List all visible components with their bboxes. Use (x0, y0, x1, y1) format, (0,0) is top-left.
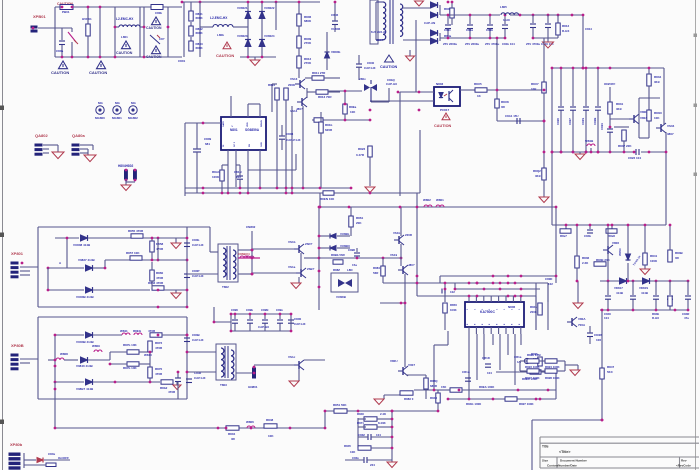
svg-text:VS1b: VS1b (393, 231, 400, 235)
svg-text:R85U: R85U (450, 303, 457, 307)
svg-text:VU8024: VU8024 (264, 34, 275, 38)
svg-text:VS1c: VS1c (288, 355, 296, 359)
svg-text:C81b 104: C81b 104 (502, 42, 515, 46)
svg-text:R884: R884 (373, 266, 380, 270)
svg-text:10K: 10K (350, 110, 356, 114)
svg-text:200K: 200K (530, 310, 538, 314)
svg-text:C83x: C83x (48, 452, 56, 456)
svg-text:VU80B 414B: VU80B 414B (76, 295, 95, 299)
svg-text:3K9: 3K9 (654, 80, 660, 84)
svg-text:W811: W811 (120, 329, 128, 333)
svg-text:C827: C827 (568, 118, 572, 125)
svg-text:C84R: C84R (594, 333, 603, 337)
svg-text:R834: R834 (654, 75, 662, 79)
svg-text:R84G 100K: R84G 100K (466, 402, 482, 406)
svg-text:2.2K: 2.2K (582, 261, 589, 265)
svg-text:270K: 270K (304, 61, 312, 65)
svg-text:GN801: GN801 (248, 385, 258, 389)
svg-text:VS1a: VS1a (288, 265, 296, 269)
svg-text:R855 470R: R855 470R (128, 229, 144, 233)
svg-text:W810: W810 (144, 353, 152, 357)
svg-text:R8U8: R8U8 (501, 100, 509, 104)
svg-text:CAP-HX: CAP-HX (364, 66, 376, 70)
svg-text:Size: Size (542, 459, 548, 463)
svg-text:CR1a: CR1a (514, 355, 522, 359)
svg-text:R83B: R83B (675, 251, 684, 255)
svg-text:8.43K: 8.43K (378, 421, 387, 425)
svg-text:C89b: C89b (246, 308, 253, 312)
svg-text:QA802: QA802 (35, 133, 48, 138)
svg-text:MG801: MG801 (112, 116, 122, 120)
svg-text:25V 4700u: 25V 4700u (526, 42, 540, 46)
svg-text:V80U: V80U (390, 359, 398, 363)
svg-text:CAP-HX: CAP-HX (386, 82, 397, 86)
svg-text:N801: N801 (230, 128, 238, 132)
svg-text:R836: R836 (582, 256, 590, 260)
svg-text:MG800: MG800 (95, 116, 105, 120)
svg-text:47u: 47u (684, 316, 689, 320)
svg-text:C800: C800 (294, 317, 302, 321)
svg-text:On/OFF: On/OFF (58, 456, 69, 460)
svg-text:VS19: VS19 (390, 253, 397, 257)
svg-text:CAP-HX: CAP-HX (194, 376, 206, 380)
svg-text:C821: C821 (600, 123, 604, 130)
svg-text:C84b: C84b (584, 234, 591, 238)
svg-text:XP80b: XP80b (10, 442, 23, 447)
svg-text:GND: GND (261, 142, 263, 147)
svg-text:R872: R872 (155, 341, 163, 345)
svg-text:R8EN 10K: R8EN 10K (320, 197, 335, 201)
svg-text:0.47R: 0.47R (356, 153, 365, 157)
svg-text:W808: W808 (60, 352, 68, 356)
svg-text:HVR01: HVR01 (82, 17, 92, 21)
svg-text:C83B: C83B (192, 333, 201, 337)
svg-text:20K: 20K (356, 221, 362, 225)
svg-text:VD817: VD817 (614, 286, 623, 290)
svg-text:C89N: C89N (261, 308, 268, 312)
svg-text:104: 104 (604, 316, 609, 320)
svg-text:C81S: C81S (581, 118, 585, 125)
svg-text:V08B7 414B: V08B7 414B (76, 387, 94, 391)
svg-text:VU8DB: VU8DB (336, 295, 346, 299)
svg-text:10K: 10K (268, 434, 274, 438)
svg-text:MG: MG (131, 101, 136, 105)
svg-text:MG: MG (115, 101, 120, 105)
svg-text:700A: 700A (578, 323, 586, 327)
svg-text:C8NBU4: C8NBU4 (238, 252, 250, 256)
svg-text:104: 104 (376, 433, 381, 437)
svg-text:L8N: L8N (347, 268, 352, 272)
svg-text:CR1A: CR1A (462, 370, 471, 374)
svg-text:VU808 414B: VU808 414B (73, 243, 91, 247)
svg-text:470R: 470R (155, 346, 163, 350)
svg-text:C80P: C80P (192, 269, 200, 273)
svg-text:V80x: V80x (359, 77, 366, 81)
svg-text:1-HX: 1-HX (503, 18, 510, 22)
svg-text:C81b: C81b (486, 28, 493, 32)
svg-text:R-HX: R-HX (562, 29, 569, 33)
svg-text:CAUTION: CAUTION (216, 53, 234, 58)
svg-text:DRAIN: DRAIN (260, 120, 263, 127)
svg-text:R883 0: R883 0 (404, 397, 414, 401)
svg-text:R858: R858 (156, 242, 164, 246)
svg-text:25V 2200u: 25V 2200u (465, 42, 479, 46)
svg-text:J80?: J80? (296, 107, 303, 111)
svg-text:C898: C898 (348, 248, 355, 252)
svg-text:R837: R837 (618, 144, 626, 148)
svg-text:XPB01: XPB01 (33, 14, 46, 19)
svg-text:R8b2: R8b2 (160, 386, 168, 390)
svg-text:102: 102 (548, 282, 553, 286)
svg-text:681: 681 (205, 142, 210, 146)
svg-text:V806: V806 (612, 241, 619, 245)
svg-text:C840: C840 (367, 61, 375, 65)
svg-text:15a: 15a (352, 263, 357, 267)
svg-text:MG: MG (98, 101, 103, 105)
svg-text:VS13: VS13 (290, 77, 298, 81)
svg-text:V007: V007 (408, 363, 415, 367)
svg-text:CAP-HX: CAP-HX (258, 325, 269, 329)
svg-text:2SD?: 2SD? (305, 242, 313, 246)
svg-text:R847: R847 (607, 365, 615, 369)
svg-text:R8A1: R8A1 (212, 170, 220, 174)
svg-text:C89x: C89x (276, 308, 283, 312)
svg-text:R871: R871 (357, 421, 364, 425)
svg-text:470R: 470R (156, 276, 164, 280)
svg-text:CustomNumber/Date: CustomNumber/Date (547, 464, 577, 468)
svg-text:T802: T802 (222, 285, 229, 289)
svg-text:Rev: Rev (681, 459, 687, 463)
svg-text:680K: 680K (304, 19, 312, 23)
svg-text:FB: FB (249, 144, 251, 147)
svg-text:R8U5: R8U5 (474, 82, 482, 86)
svg-text:R88Q: R88Q (430, 379, 438, 383)
svg-text:XP80B: XP80B (11, 343, 24, 348)
svg-text:680K: 680K (196, 31, 204, 35)
svg-text:470R: 470R (168, 390, 176, 394)
svg-text:R811 27R: R811 27R (312, 71, 326, 75)
svg-text:C809: C809 (204, 137, 212, 141)
svg-text:25V 2200u: 25V 2200u (443, 42, 457, 46)
svg-text:CAUTION: CAUTION (116, 51, 133, 55)
svg-text:100K: 100K (450, 308, 457, 312)
svg-text:C820: C820 (556, 118, 560, 125)
svg-text:<RevCode: <RevCode (676, 464, 691, 468)
svg-text:C811: C811 (444, 28, 451, 32)
svg-text:VU8022: VU8022 (264, 6, 275, 10)
svg-text:R827 100K: R827 100K (525, 376, 541, 380)
svg-text:W802: W802 (423, 198, 431, 202)
svg-text:R831: R831 (616, 102, 624, 106)
svg-text:Title: Title (542, 445, 549, 449)
svg-text:L2-EMC-HX: L2-EMC-HX (116, 17, 134, 21)
svg-text:V803: V803 (640, 116, 647, 120)
svg-text:CAP-HX: CAP-HX (192, 243, 204, 247)
svg-text:T803: T803 (220, 383, 227, 387)
svg-text:C82B: C82B (593, 118, 597, 125)
svg-text:R8x7: R8x7 (560, 234, 567, 238)
svg-text:CAUTION: CAUTION (51, 70, 69, 75)
svg-text:620R: 620R (325, 128, 333, 132)
svg-text:CAUTION: CAUTION (146, 26, 162, 30)
svg-text:C801: C801 (178, 59, 186, 63)
svg-text:R82b 10M: R82b 10M (527, 353, 541, 357)
svg-text:C81a: C81a (466, 28, 473, 32)
svg-text:R84d: R84d (430, 396, 437, 400)
svg-text:270K: 270K (304, 41, 312, 45)
svg-text:VD816: VD816 (619, 248, 622, 256)
svg-text:VU8Eb: VU8Eb (340, 232, 350, 236)
svg-text:680R: 680R (430, 384, 438, 388)
svg-text:N803: N803 (436, 82, 444, 86)
svg-text:2SB?: 2SB? (307, 267, 315, 271)
svg-text:680K: 680K (196, 16, 204, 20)
svg-text:3K9: 3K9 (616, 107, 622, 111)
svg-text:J80?: J80? (408, 263, 415, 267)
svg-text:R81b: R81b (325, 123, 333, 127)
svg-text:100K: 100K (212, 175, 220, 179)
svg-text:C80D: C80D (545, 277, 552, 281)
svg-text:R8EA 100K: R8EA 100K (479, 385, 495, 389)
svg-text:R851 50K: R851 50K (333, 403, 347, 407)
svg-text:W801: W801 (436, 198, 444, 202)
svg-text:CN802: CN802 (246, 225, 256, 229)
svg-text:414B: 414B (641, 291, 648, 295)
svg-text:L805: L805 (500, 5, 507, 9)
svg-text:680K: 680K (196, 46, 204, 50)
svg-text:CAUTION: CAUTION (146, 55, 162, 59)
svg-text:MG802: MG802 (128, 116, 138, 120)
svg-text:10K: 10K (350, 450, 356, 454)
svg-text:R8x8: R8x8 (608, 234, 615, 238)
svg-text:C896: C896 (231, 308, 238, 312)
svg-text:Document Number: Document Number (560, 459, 588, 463)
svg-text:3807: 3807 (667, 132, 674, 136)
svg-text:R845: R845 (344, 444, 351, 448)
svg-text:V0827 414B: V0827 414B (78, 258, 96, 262)
svg-text:100K: 100K (650, 259, 658, 263)
svg-text:R822: R822 (358, 147, 366, 151)
svg-text:<Title>: <Title> (559, 450, 571, 454)
svg-text:R8EG: R8EG (133, 329, 142, 333)
svg-text:R861: R861 (356, 216, 364, 220)
svg-text:SG6859A: SG6859A (245, 128, 260, 132)
svg-text:W809: W809 (92, 344, 100, 348)
svg-text:C81B: C81B (234, 170, 243, 174)
svg-text:220R: 220R (405, 233, 413, 237)
svg-text:H804H802: H804H802 (118, 164, 133, 168)
svg-text:CAUTION: CAUTION (380, 65, 398, 69)
svg-text:ON/OFF: ON/OFF (604, 82, 615, 86)
svg-text:CAP-P-HX: CAP-P-HX (286, 138, 301, 142)
svg-text:R88Z: R88Z (333, 268, 340, 272)
svg-text:C8?: C8? (159, 37, 165, 41)
svg-text:C808: C808 (286, 132, 294, 136)
svg-text:C814: C814 (585, 27, 592, 31)
svg-text:W81B: W81B (585, 139, 594, 143)
svg-text:CAP-HX: CAP-HX (192, 274, 204, 278)
svg-text:C83x: C83x (352, 456, 359, 460)
svg-text:VS04: VS04 (667, 124, 675, 128)
svg-text:22K: 22K (626, 144, 632, 148)
svg-text:R83O: R83O (654, 111, 663, 115)
svg-text:CAUTION: CAUTION (434, 124, 452, 128)
svg-text:QA80a: QA80a (72, 133, 85, 138)
svg-text:15K: 15K (441, 385, 447, 389)
svg-text:PC817: PC817 (440, 108, 450, 112)
svg-text:CAP-HX: CAP-HX (192, 338, 204, 342)
svg-text:W806: W806 (246, 420, 254, 424)
svg-text:C80a: C80a (56, 49, 64, 53)
svg-text:R856 470R: R856 470R (148, 281, 164, 285)
svg-text:2.4K: 2.4K (380, 412, 387, 416)
svg-text:NC 3: NC 3 (234, 141, 236, 147)
svg-text:56R: 56R (373, 271, 379, 275)
svg-text:C832: C832 (358, 433, 365, 437)
svg-text:R-HX: R-HX (652, 316, 659, 320)
svg-text:R812: R812 (562, 24, 570, 28)
svg-text:R841: R841 (650, 254, 658, 258)
svg-text:R8Bb 56R: R8Bb 56R (331, 253, 346, 257)
svg-text:L80b: L80b (217, 33, 224, 37)
svg-text:VD81S: VD81S (639, 286, 648, 290)
svg-text:L2-EMC-HX: L2-EMC-HX (210, 16, 228, 20)
svg-text:R827 100K: R827 100K (519, 402, 535, 406)
svg-text:V0840 414B: V0840 414B (76, 364, 94, 368)
svg-text:VU8021: VU8021 (237, 6, 248, 10)
svg-text:R8Q2: R8Q2 (533, 169, 541, 173)
svg-text:470R: 470R (155, 372, 163, 376)
svg-text:R8Ea: R8Ea (349, 105, 357, 109)
svg-text:224: 224 (370, 463, 375, 467)
svg-text:PB01: PB01 (62, 10, 70, 14)
svg-text:C8A1 15U: C8A1 15U (505, 114, 519, 118)
svg-text:CAUTION: CAUTION (89, 70, 107, 75)
svg-text:VD80b: VD80b (331, 50, 341, 54)
svg-text:104: 104 (487, 371, 492, 375)
svg-text:VS1b: VS1b (288, 240, 296, 244)
svg-text:R860: R860 (156, 271, 164, 275)
svg-text:N806: N806 (508, 305, 516, 309)
svg-text:10K: 10K (654, 116, 660, 120)
svg-text:5K0: 5K0 (607, 370, 613, 374)
svg-text:C822 104: C822 104 (628, 156, 641, 160)
svg-text:CR1D: CR1D (482, 356, 490, 360)
svg-text:R840: R840 (357, 412, 364, 416)
svg-text:R828 100K: R828 100K (545, 376, 561, 380)
svg-text:414B: 414B (616, 291, 623, 295)
svg-text:3K9: 3K9 (535, 174, 541, 178)
svg-text:R804: R804 (228, 432, 236, 436)
svg-text:L801: L801 (121, 35, 128, 39)
svg-text:R870: R870 (155, 367, 163, 371)
svg-text:R813 70R: R813 70R (318, 95, 332, 99)
svg-text:CAP-AN: CAP-AN (424, 21, 435, 25)
svg-text:VU806: VU806 (331, 27, 341, 31)
svg-text:470R: 470R (156, 247, 164, 251)
svg-text:B-2K 2024-HX: B-2K 2024-HX (371, 31, 387, 34)
svg-text:R857 10K: R857 10K (126, 251, 140, 255)
svg-text:102: 102 (450, 290, 455, 294)
svg-text:R848: R848 (266, 418, 274, 422)
svg-text:C80b: C80b (192, 238, 200, 242)
svg-text:10K: 10K (531, 87, 537, 91)
svg-text:R8U7: R8U7 (531, 82, 539, 86)
svg-text:200K: 200K (288, 83, 296, 87)
svg-text:V80b: V80b (640, 110, 647, 114)
svg-text:CAP-HX: CAP-HX (294, 322, 306, 326)
svg-text:R87b 10K: R87b 10K (123, 366, 138, 370)
svg-text:VDD: VDD (247, 122, 249, 127)
svg-text:XP801: XP801 (11, 251, 24, 256)
svg-text:C80b: C80b (155, 11, 162, 15)
svg-text:R87b 10K: R87b 10K (123, 343, 138, 347)
svg-text:V80A: V80A (578, 317, 586, 321)
svg-text:GATE: GATE (222, 121, 225, 127)
svg-text:106: 106 (596, 338, 601, 342)
svg-text:VU8023: VU8023 (237, 34, 248, 38)
